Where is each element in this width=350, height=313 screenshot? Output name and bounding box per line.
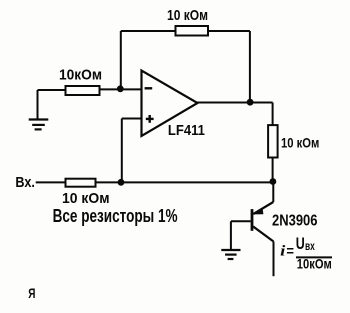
transistor Q1 collector diagonal	[253, 227, 273, 242]
resistor R4 10 kOhm vertical	[268, 125, 278, 157]
node: noninverting junction dot	[118, 179, 125, 186]
wire R1 to op-amp inverting input	[100, 88, 142, 90]
svg-text:2N3906: 2N3906	[272, 212, 318, 229]
svg-text:10 кОм: 10 кОм	[62, 190, 110, 207]
svg-text:10кОм: 10кОм	[297, 257, 332, 272]
wire feedback top-left segment	[121, 30, 175, 32]
transistor Q1 base bar	[251, 209, 254, 231]
svg-text:10 кОм: 10 кОм	[167, 7, 208, 24]
wire R3 to emitter node	[97, 181, 273, 183]
wire feedback right vertical down to output node	[249, 31, 251, 103]
node: emitter node junction dot	[270, 178, 277, 185]
node: inverting input junction dot	[117, 85, 124, 92]
resistor R3 10 kOhm noninverting input	[66, 179, 96, 187]
wire output corner down to R4	[272, 103, 274, 126]
wire Вх to R3	[36, 181, 66, 183]
op-amp U1 LF411 triangle	[142, 71, 198, 137]
wire feedback top-right segment	[209, 30, 250, 32]
wire feedback left vertical down to inverting node	[120, 31, 122, 89]
resistor R1 10 kOhm inverting input	[66, 86, 100, 95]
svg-text:Все резисторы 1%: Все резисторы 1%	[53, 206, 178, 226]
wire op-amp output	[197, 102, 273, 104]
wire emitter vertical lead	[272, 182, 274, 203]
svg-text:10 кОм: 10 кОм	[281, 136, 319, 151]
op-amp plus sign	[146, 115, 154, 123]
transistor Q1 emitter diagonal	[253, 202, 273, 214]
svg-text:U: U	[296, 234, 305, 253]
op-amp minus sign	[145, 87, 153, 89]
resistor R2 10 kOhm feedback	[176, 26, 209, 36]
node: output junction dot	[247, 99, 254, 106]
svg-text:вх: вх	[305, 239, 315, 253]
ground G2 symbol	[221, 250, 240, 259]
wire base vertical to ground	[230, 221, 232, 249]
wire ground to R1	[38, 89, 66, 91]
transistor Q1 emitter arrow	[254, 208, 264, 215]
svg-text:10кОм: 10кОм	[59, 67, 102, 84]
wire collector vertical	[273, 242, 275, 277]
svg-text:Я: Я	[28, 285, 35, 301]
wire noninverting input vertical down to input line	[121, 119, 123, 183]
wire base horizontal	[231, 220, 251, 222]
formula i equals Uвх over 10кОм	[280, 234, 332, 272]
ground G1 symbol	[29, 120, 49, 130]
wire op-amp noninverting input horizontal	[122, 118, 142, 120]
svg-text:=: =	[286, 244, 294, 259]
ground G1 vertical lead	[37, 90, 39, 119]
formula fraction bar	[296, 256, 332, 258]
svg-text:LF411: LF411	[168, 122, 205, 139]
wire R4 bottom to emitter node	[272, 158, 274, 182]
svg-text:Вх.: Вх.	[15, 174, 35, 191]
